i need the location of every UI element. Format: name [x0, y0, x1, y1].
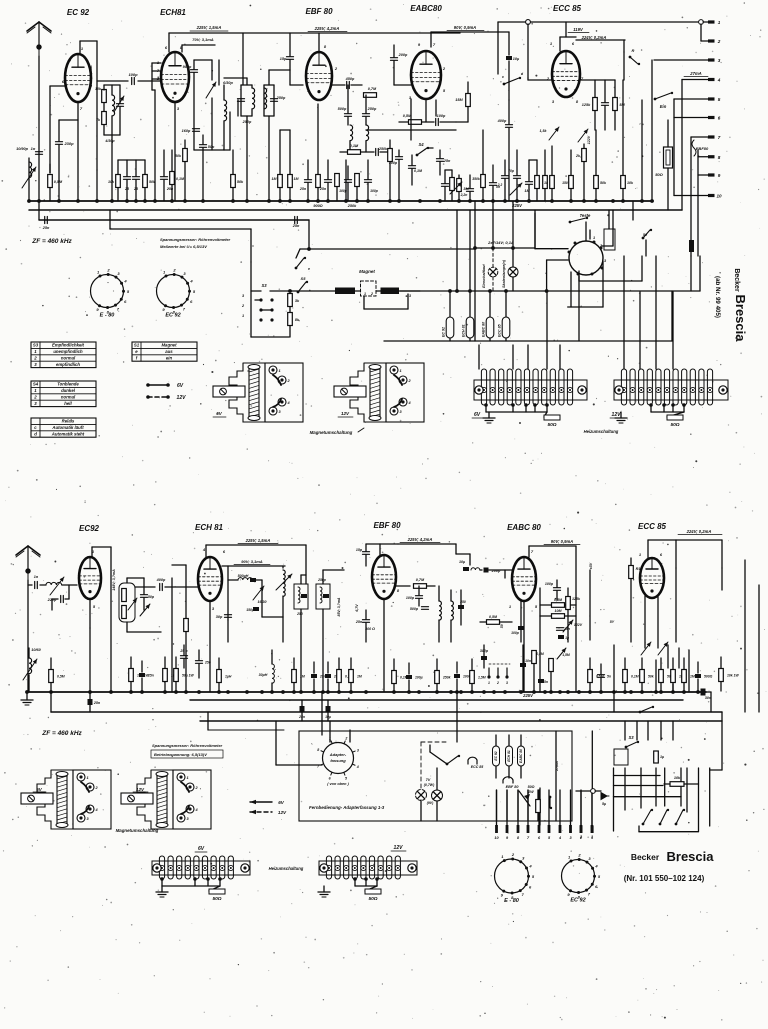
wire	[528, 546, 530, 557]
svg-text:hell: hell	[64, 401, 72, 406]
svg-text:30p: 30p	[216, 615, 223, 619]
wire	[595, 790, 601, 792]
capacitor 250p b2	[323, 594, 329, 598]
wire	[293, 658, 295, 669]
resistor 250k	[388, 149, 393, 162]
resistor 50&#937;	[209, 886, 225, 894]
svg-text:S1: S1	[134, 343, 140, 348]
resistor 1M b	[184, 619, 189, 632]
wire	[489, 338, 491, 341]
inductor 30uH	[272, 664, 274, 683]
capacitor 200p b	[484, 568, 489, 573]
wire	[323, 886, 325, 892]
capacitor C blk	[250, 578, 256, 582]
junction	[292, 690, 296, 694]
wire	[589, 683, 591, 692]
svg-text:90V; 0,9mA: 90V; 0,9mA	[551, 539, 573, 544]
svg-text:122V: 122V	[574, 623, 583, 627]
resistor 1M	[278, 175, 283, 188]
wire	[164, 682, 166, 691]
capacitor 10u d	[326, 706, 331, 712]
svg-text:12V: 12V	[394, 845, 404, 851]
capacitor 70p	[514, 176, 521, 179]
junction	[306, 199, 310, 203]
junction	[125, 199, 129, 203]
wire	[338, 683, 340, 692]
wire	[431, 31, 509, 33]
switch S5	[297, 281, 309, 294]
svg-text:500µH: 500µH	[238, 574, 249, 578]
wire	[576, 39, 625, 41]
capacitor 25n	[161, 177, 168, 180]
wire	[425, 99, 427, 122]
wire	[154, 90, 156, 201]
wire	[645, 240, 647, 256]
wire	[456, 121, 468, 123]
capacitor C	[526, 182, 533, 185]
pot 1,5k	[549, 127, 559, 140]
capacitor 25n	[124, 177, 131, 180]
svg-text:100p: 100p	[437, 114, 446, 118]
trimmer bf2	[140, 604, 150, 616]
capacitor 25n	[139, 673, 145, 677]
svg-text:normal: normal	[61, 355, 76, 360]
wire tap	[218, 877, 222, 886]
wire	[109, 210, 111, 229]
wire	[135, 586, 155, 588]
box S3	[614, 749, 628, 765]
junction	[654, 690, 658, 694]
svg-text:Spannungsmesser: Röhrenvoltmet: Spannungsmesser: Röhrenvoltmeter	[160, 237, 231, 242]
svg-text:1: 1	[488, 681, 490, 685]
heater loop ECH 81 b	[506, 746, 513, 766]
svg-text:12V: 12V	[278, 810, 287, 815]
wire	[144, 188, 146, 201]
wire	[367, 160, 369, 179]
wire	[251, 290, 261, 292]
capacitor 30n	[689, 240, 694, 252]
junction	[468, 199, 472, 203]
svg-text:2x7/14V; 0,1A: 2x7/14V; 0,1A	[487, 240, 514, 245]
heater rheostat 6V comb	[474, 369, 587, 405]
wire	[91, 547, 93, 557]
wire	[614, 796, 682, 798]
resistor 0,1M	[623, 670, 628, 683]
wire	[591, 793, 593, 826]
wire	[591, 731, 593, 788]
wire	[162, 885, 220, 887]
wire	[496, 790, 498, 821]
wire	[504, 570, 506, 578]
wire	[411, 155, 413, 165]
wire	[418, 586, 420, 595]
wire	[255, 299, 261, 301]
capacitor 10u	[506, 56, 512, 60]
svg-text:EC92: EC92	[79, 524, 100, 533]
switch 50	[642, 229, 653, 240]
junction	[566, 690, 570, 694]
resistor R	[355, 174, 360, 187]
capacitor 30p	[225, 615, 232, 618]
svg-text:(9V): (9V)	[427, 801, 434, 805]
svg-text:250p: 250p	[276, 96, 286, 100]
svg-text:400p: 400p	[156, 578, 166, 582]
svg-text:50k: 50k	[175, 154, 182, 158]
wire underline	[684, 76, 708, 78]
trimmer ant b	[50, 577, 64, 595]
wire	[349, 141, 351, 152]
pin 8	[708, 155, 721, 160]
capacitor 5n	[490, 183, 497, 186]
pin 1 b	[591, 825, 594, 840]
svg-text:6V: 6V	[198, 846, 205, 852]
wire	[394, 84, 411, 86]
wire	[268, 116, 270, 201]
svg-text:25n: 25n	[147, 674, 154, 678]
wire	[639, 831, 699, 833]
svg-text:1: 1	[593, 236, 595, 240]
svg-text:Empfindlichkeit: Empfindlichkeit	[52, 343, 85, 348]
junction	[629, 690, 633, 694]
wire	[456, 553, 470, 555]
box IF1 b	[294, 584, 308, 609]
junction	[455, 690, 459, 694]
svg-text:1: 1	[718, 20, 721, 25]
wire tap	[671, 403, 675, 412]
wire	[505, 291, 507, 317]
capacitor 450p	[347, 82, 350, 89]
svg-text:(0,7W): (0,7W)	[424, 783, 435, 787]
wire	[52, 598, 58, 600]
wire	[181, 45, 183, 52]
wire	[449, 338, 451, 341]
osc arrow	[276, 574, 292, 590]
junction	[611, 199, 615, 203]
wire	[550, 672, 552, 692]
inductor L	[366, 125, 369, 141]
wire	[143, 578, 145, 594]
wire	[535, 248, 568, 250]
inductor IF1b	[264, 88, 267, 109]
wire	[436, 768, 438, 790]
wire	[418, 599, 420, 606]
svg-text:119V: 119V	[573, 27, 584, 32]
wire	[430, 752, 447, 764]
capacitor 400p	[506, 125, 513, 128]
wire	[322, 570, 324, 584]
junction	[701, 690, 705, 694]
wire	[384, 340, 672, 342]
wire	[200, 720, 722, 722]
svg-text:R1: R1	[636, 567, 641, 571]
wire	[250, 229, 252, 262]
socket dot a2	[270, 298, 273, 301]
svg-text:EC 92: EC 92	[67, 8, 90, 17]
wire	[144, 160, 146, 174]
capacitor C 230p	[56, 142, 63, 145]
capacitor 250p b3	[458, 605, 464, 609]
svg-text:160p: 160p	[182, 129, 191, 133]
wire	[39, 219, 309, 221]
wire	[135, 180, 137, 201]
lamp 9V	[432, 790, 443, 801]
wire	[361, 151, 374, 153]
wire tap	[484, 403, 488, 412]
brace EBF80	[692, 140, 696, 156]
wire	[672, 658, 674, 669]
wire	[489, 291, 491, 317]
wire underline	[568, 32, 589, 34]
lamp Skalenlampe	[508, 267, 518, 277]
svg-text:Magnetumschaltung: Magnetumschaltung	[116, 828, 159, 833]
wire	[289, 188, 291, 201]
wire	[451, 170, 453, 177]
wire	[289, 33, 291, 56]
junction	[577, 690, 581, 694]
wire underline	[213, 416, 226, 418]
wire	[456, 662, 458, 673]
wire	[366, 129, 456, 131]
wire	[520, 766, 522, 778]
pin 7 b	[527, 825, 530, 840]
wire	[141, 678, 143, 691]
wire	[50, 85, 65, 87]
junction	[163, 690, 167, 694]
svg-text:5: 5	[718, 97, 721, 102]
wire	[307, 183, 309, 201]
inductor magnet coil 2	[381, 288, 400, 295]
wire	[127, 577, 144, 579]
wire	[279, 188, 281, 201]
wire	[456, 692, 458, 742]
wire	[585, 222, 587, 241]
wire	[678, 648, 680, 668]
wire	[528, 160, 530, 181]
wire	[469, 210, 471, 249]
wire	[575, 546, 577, 692]
wire	[567, 610, 569, 642]
svg-text:250p: 250p	[367, 107, 377, 111]
wire	[480, 569, 482, 571]
wire	[706, 691, 711, 693]
wire	[655, 660, 657, 692]
pin 5	[708, 97, 721, 102]
wire	[620, 412, 622, 418]
resistor 7k	[102, 112, 107, 125]
wire	[450, 620, 452, 642]
wire	[305, 545, 307, 584]
junction	[231, 199, 235, 203]
svg-text:1,5k: 1,5k	[540, 129, 548, 133]
wire	[710, 769, 722, 771]
capacitor 2,2n	[467, 189, 474, 192]
wire underline	[678, 534, 722, 536]
resistor 1M	[349, 670, 354, 683]
resistor 0,5M	[409, 120, 422, 125]
junction	[267, 199, 271, 203]
wire	[218, 60, 220, 85]
wire	[450, 590, 452, 601]
capacitor 25n	[325, 674, 331, 678]
wire	[183, 645, 185, 655]
svg-text:S3: S3	[33, 343, 39, 348]
wire	[301, 700, 303, 707]
wire	[539, 788, 541, 825]
wire	[697, 679, 699, 692]
svg-text:Brescia: Brescia	[733, 295, 748, 343]
junction	[543, 690, 547, 694]
wire	[205, 545, 207, 557]
resistor 0,5M	[48, 175, 53, 188]
junction	[455, 289, 459, 293]
resistor 5M	[613, 98, 618, 111]
wire	[193, 73, 195, 150]
wire	[103, 85, 105, 90]
wire	[701, 40, 708, 42]
junction	[438, 199, 442, 203]
wire underline	[391, 850, 406, 852]
wire	[613, 768, 615, 831]
wire	[469, 291, 471, 317]
wire	[224, 149, 230, 151]
junction	[88, 690, 92, 694]
junction	[549, 690, 553, 694]
wire	[65, 598, 69, 600]
svg-text:250k: 250k	[378, 147, 388, 151]
wire	[520, 735, 522, 746]
wire	[347, 117, 349, 125]
wire	[152, 70, 161, 72]
wire	[512, 345, 514, 369]
wire	[317, 104, 319, 174]
ground	[156, 892, 168, 897]
wire	[622, 80, 624, 175]
wire tap	[206, 877, 210, 886]
svg-text:EABC80: EABC80	[410, 4, 442, 13]
wire	[163, 180, 165, 201]
wire	[347, 166, 349, 179]
switch cd	[503, 77, 522, 86]
svg-text:EC 92: EC 92	[494, 751, 498, 760]
svg-text:225V; 4,2mA: 225V; 4,2mA	[314, 26, 340, 31]
svg-text:0,5M: 0,5M	[536, 652, 544, 656]
wire	[516, 179, 518, 201]
resistor 1u	[654, 751, 659, 763]
switch S4	[416, 147, 430, 157]
wire	[268, 70, 270, 85]
junction	[226, 690, 230, 694]
svg-text:1,5M: 1,5M	[562, 653, 570, 657]
svg-text:85V; 3,?mA: 85V; 3,?mA	[337, 597, 341, 616]
tube EC92	[65, 54, 91, 102]
wire	[641, 658, 643, 669]
wire	[483, 645, 485, 656]
svg-text:25n: 25n	[42, 226, 50, 230]
svg-text:3: 3	[718, 58, 721, 63]
wire underline 6V	[472, 417, 484, 419]
svg-text:3: 3	[506, 681, 508, 685]
resistor 50ohm 2W	[536, 800, 541, 813]
svg-text:500p: 500p	[338, 107, 347, 111]
EM pin 7	[568, 251, 571, 254]
wire	[229, 112, 231, 150]
heater rheostat 12V comb	[614, 369, 728, 405]
wire	[365, 141, 367, 152]
wire	[647, 721, 649, 740]
inductor IF1a	[252, 88, 255, 109]
pin 9	[708, 173, 721, 178]
pot 122V b	[563, 620, 573, 632]
resistor 0,5	[122, 589, 127, 602]
pin 9 b	[506, 825, 509, 840]
capacitor 100&#181;	[406, 675, 412, 679]
tube ECC85 b	[640, 558, 664, 598]
wire	[379, 544, 381, 555]
wire	[80, 40, 97, 42]
wire	[279, 130, 281, 174]
wire	[263, 85, 265, 116]
wire	[62, 584, 77, 586]
junction	[671, 690, 675, 694]
svg-text:3: 3	[357, 748, 359, 752]
wire	[456, 210, 458, 291]
wire	[365, 544, 367, 551]
wire	[289, 130, 291, 174]
svg-text:Automatik steht: Automatik steht	[51, 431, 85, 436]
wire	[376, 290, 381, 292]
EM pin 5	[591, 273, 594, 276]
wire	[300, 575, 302, 584]
switch e	[295, 257, 307, 270]
svg-text:c: c	[502, 75, 504, 79]
wire	[600, 664, 602, 674]
wire	[313, 662, 315, 673]
wire	[439, 162, 441, 175]
junction	[448, 289, 452, 293]
capacitor 160p	[193, 129, 200, 132]
magnet clutch 12V unit b	[121, 770, 211, 829]
wire	[469, 192, 471, 201]
tube EM34	[569, 241, 603, 275]
junction	[527, 199, 531, 203]
switch S3 b	[625, 741, 640, 749]
wire	[516, 150, 518, 175]
junction	[488, 289, 492, 293]
svg-text:Relais: Relais	[62, 419, 75, 424]
capacitor 250p	[238, 99, 245, 102]
wire	[529, 159, 537, 161]
wire	[227, 566, 229, 620]
svg-text:900Ω: 900Ω	[313, 204, 322, 208]
wire	[251, 85, 253, 88]
svg-text:S4: S4	[418, 142, 424, 147]
pot 1,5M	[557, 648, 566, 659]
svg-text:100p: 100p	[511, 631, 519, 635]
wire	[168, 33, 170, 52]
wire	[420, 800, 422, 821]
wire tap	[364, 877, 368, 886]
wire	[110, 228, 251, 230]
wire	[40, 584, 46, 586]
wire	[505, 338, 507, 341]
wire	[589, 570, 591, 640]
switch blade 2	[659, 809, 670, 826]
wire tap	[193, 877, 197, 886]
wire	[644, 596, 646, 648]
wire	[96, 170, 98, 201]
wire	[580, 791, 582, 826]
wire	[667, 168, 669, 210]
